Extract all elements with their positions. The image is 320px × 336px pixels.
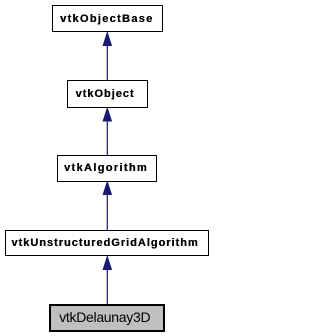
arrow vtkObject to vtkObjectBase (103, 32, 112, 81)
inheritance arrows (0, 0, 213, 336)
node vtkObjectBase (52, 5, 163, 32)
node vtkUnstructuredGridAlgorithm (5, 230, 209, 257)
arrow vtkUnstructuredGridAlgorithm to vtkAlgorithm (103, 181, 112, 230)
node vtkDelaunay3D (current class, grey) (49, 304, 166, 332)
node vtkAlgorithm (57, 155, 157, 182)
arrow vtkAlgorithm to vtkObject (103, 107, 112, 155)
arrow vtkDelaunay3D to vtkUnstructuredGridAlgorithm (103, 256, 112, 304)
node vtkObject (67, 80, 148, 108)
